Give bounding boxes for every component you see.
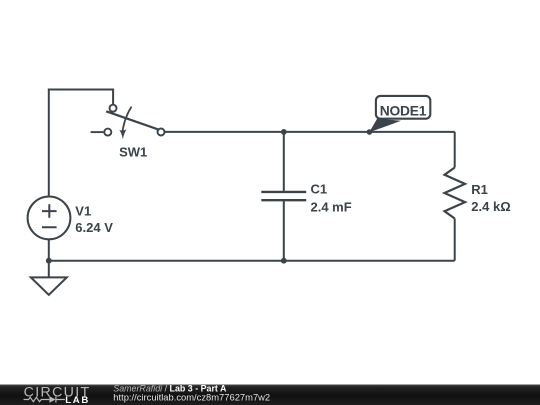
svg-text:C1: C1 — [311, 182, 328, 197]
wire right rail bottom — [454, 219, 456, 261]
svg-text:LAB: LAB — [65, 395, 90, 405]
node junction dot at C1 bottom — [281, 258, 287, 264]
svg-text:6.24 V: 6.24 V — [75, 220, 113, 235]
svg-text:2.4 mF: 2.4 mF — [311, 199, 352, 214]
ground — [31, 277, 67, 294]
footer bar — [0, 385, 540, 405]
svg-text:NODE1: NODE1 — [380, 103, 427, 118]
node junction dot at V1/ground — [46, 258, 52, 264]
svg-text:V1: V1 — [75, 204, 91, 219]
logo resistor-diode glyph — [24, 396, 65, 402]
capacitor C1 — [261, 192, 306, 200]
svg-text:SW1: SW1 — [119, 144, 147, 159]
logo diode triangle — [49, 396, 55, 403]
svg-text:2.4 kΩ: 2.4 kΩ — [471, 199, 510, 214]
resistor R1 — [445, 168, 466, 219]
wire capacitor branch top — [283, 132, 285, 191]
node NODE1 label box — [376, 96, 430, 119]
wire junction to ground — [48, 262, 50, 277]
node NODE1 anchor dot — [367, 129, 373, 135]
svg-text:R1: R1 — [471, 182, 488, 197]
wire V1 to ground junction — [48, 239, 50, 258]
node NODE1 flag tail — [369, 119, 401, 133]
node junction dot at C1 top — [281, 129, 287, 135]
wire top rail SW1 to R1 — [165, 131, 455, 133]
wire capacitor branch bottom — [283, 201, 285, 261]
switch SW1 — [91, 105, 165, 140]
wire bottom rail — [49, 260, 455, 262]
wire right rail top — [454, 132, 456, 168]
wire top-left from V1 to SW1 — [49, 90, 113, 197]
svg-text:http://circuitlab.com/cz8m7762: http://circuitlab.com/cz8m77627m7w2 — [113, 391, 270, 402]
voltage source V1 — [28, 197, 71, 240]
